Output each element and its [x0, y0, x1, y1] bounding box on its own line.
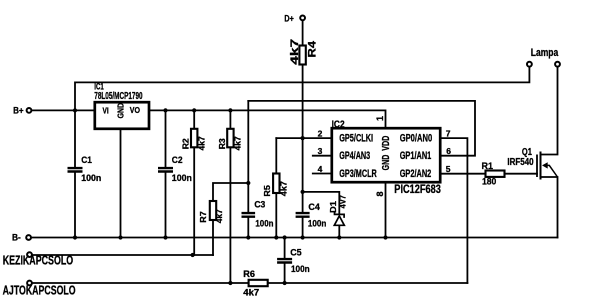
svg-text:R5: R5 — [262, 185, 272, 197]
svg-text:VI: VI — [103, 106, 109, 115]
svg-text:2: 2 — [318, 129, 323, 139]
svg-text:IC2: IC2 — [332, 119, 345, 130]
svg-text:4k7: 4k7 — [233, 136, 243, 151]
svg-text:4k7: 4k7 — [196, 136, 206, 151]
svg-text:100n: 100n — [81, 173, 101, 183]
svg-text:C4: C4 — [308, 202, 320, 212]
svg-text:4k7: 4k7 — [243, 288, 259, 298]
svg-text:AJTOKAPCSOLO: AJTOKAPCSOLO — [3, 282, 76, 297]
svg-text:78L05/MCP1790: 78L05/MCP1790 — [94, 91, 143, 102]
svg-text:B+: B+ — [13, 106, 24, 116]
svg-text:GP0/AN0: GP0/AN0 — [400, 133, 433, 145]
svg-text:GP2/AN2: GP2/AN2 — [400, 168, 432, 180]
svg-text:4k7: 4k7 — [214, 209, 224, 223]
svg-text:Lampa: Lampa — [531, 47, 559, 59]
svg-text:7: 7 — [446, 129, 451, 139]
svg-text:100n: 100n — [172, 173, 192, 183]
svg-text:100n: 100n — [255, 218, 273, 228]
svg-text:C2: C2 — [172, 155, 183, 165]
svg-text:100n: 100n — [291, 264, 310, 274]
svg-text:GP4/AN3: GP4/AN3 — [339, 150, 370, 162]
svg-text:4k7: 4k7 — [289, 39, 301, 65]
svg-text:GP3/MCLR: GP3/MCLR — [339, 168, 377, 180]
svg-text:4: 4 — [318, 164, 323, 174]
svg-text:5: 5 — [446, 164, 451, 174]
svg-text:VDD: VDD — [380, 135, 392, 150]
svg-text:180: 180 — [482, 177, 496, 187]
svg-text:KEZIKAPCSOLO: KEZIKAPCSOLO — [3, 253, 74, 268]
svg-text:R4: R4 — [306, 40, 318, 58]
svg-text:R3: R3 — [217, 138, 227, 149]
svg-text:R1: R1 — [482, 161, 494, 171]
svg-text:D+: D+ — [284, 14, 293, 24]
svg-text:GP1/AN1: GP1/AN1 — [400, 150, 432, 162]
svg-text:4k7: 4k7 — [278, 181, 288, 196]
svg-text:R2: R2 — [181, 138, 191, 149]
svg-text:B-: B- — [12, 232, 21, 242]
svg-text:GND: GND — [117, 103, 126, 119]
svg-text:GP5/CLKI: GP5/CLKI — [339, 133, 373, 145]
svg-text:C3: C3 — [254, 199, 265, 209]
svg-text:100n: 100n — [308, 219, 327, 229]
svg-text:R6: R6 — [243, 269, 255, 279]
svg-text:4V7: 4V7 — [338, 195, 348, 209]
svg-text:1: 1 — [375, 116, 385, 121]
svg-text:C1: C1 — [81, 155, 92, 165]
svg-text:C5: C5 — [290, 247, 301, 257]
svg-text:R7: R7 — [198, 211, 208, 223]
svg-text:3: 3 — [318, 146, 323, 156]
svg-text:6: 6 — [446, 146, 451, 156]
svg-text:PIC12F683: PIC12F683 — [394, 184, 441, 196]
svg-text:GND: GND — [380, 154, 392, 170]
svg-text:IRF540: IRF540 — [507, 157, 533, 168]
svg-text:8: 8 — [375, 191, 385, 196]
svg-text:VO: VO — [130, 105, 141, 115]
